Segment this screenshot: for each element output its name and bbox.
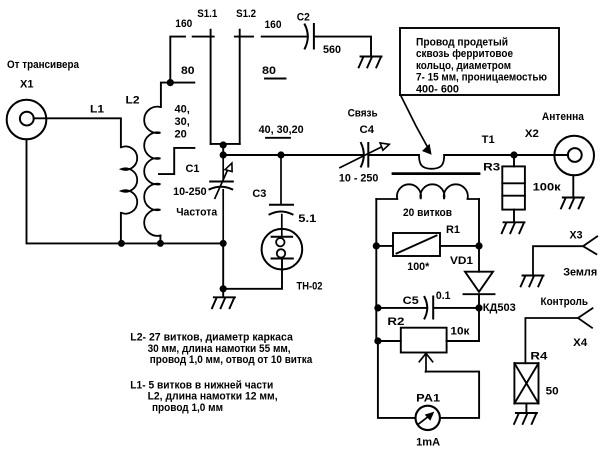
svg-text:X4: X4	[573, 337, 588, 349]
resistor R4 (with X)	[514, 363, 538, 413]
svg-text:X1: X1	[20, 79, 34, 91]
ground under X3	[521, 276, 544, 287]
main line left segment	[223, 154, 364, 156]
neon lamp TH-02	[262, 229, 303, 270]
wire 40/30/20 stub right	[266, 137, 290, 139]
wire ground junction to lamp	[223, 259, 282, 289]
svg-text:R1: R1	[446, 224, 460, 236]
svg-text:160: 160	[265, 19, 282, 31]
svg-text:L2- 27 витков, диаметр каркас: L2- 27 витков, диаметр каркаса	[130, 332, 293, 344]
wire L2 top connector	[161, 83, 194, 107]
svg-text:VD1: VD1	[450, 255, 473, 267]
winding note L1 text	[130, 379, 277, 414]
transformer T1 core bar	[393, 172, 479, 175]
wire 160m tap from L2 top	[170, 37, 185, 83]
svg-text:R2: R2	[387, 316, 404, 328]
diode VD1	[464, 272, 495, 308]
svg-text:30 мм, длина намотки 55 мм,: 30 мм, длина намотки 55 мм,	[148, 343, 291, 355]
wire wiper to meter right	[426, 372, 480, 418]
svg-text:S1.2: S1.2	[236, 8, 256, 20]
svg-text:40,: 40,	[175, 103, 190, 115]
svg-text:провод 1,0 мм, отвод от 10 вит: провод 1,0 мм, отвод от 10 витка	[150, 354, 313, 366]
wire secondary right vertical	[478, 199, 480, 272]
svg-text:R4: R4	[530, 351, 548, 363]
svg-text:Частота: Частота	[176, 206, 218, 218]
svg-text:Связь: Связь	[348, 108, 378, 120]
svg-text:R3: R3	[483, 162, 500, 174]
inductor L1	[121, 146, 137, 213]
ground under R3	[502, 222, 525, 233]
svg-text:560: 560	[323, 44, 341, 56]
svg-text:S1.1: S1.1	[197, 8, 217, 20]
svg-text:100к: 100к	[533, 182, 562, 194]
svg-text:сквозь ферритовое: сквозь ферритовое	[416, 48, 513, 60]
winding note L2 text	[130, 332, 312, 367]
connector X1 (От трансивера)	[7, 100, 47, 140]
svg-text:30,: 30,	[175, 116, 190, 128]
connector X2	[554, 136, 594, 176]
svg-text:80: 80	[262, 65, 276, 77]
wire switch common U	[211, 143, 240, 145]
node 80m tap junction	[167, 79, 174, 86]
svg-text:C4: C4	[360, 124, 375, 136]
svg-text:100*: 100*	[407, 261, 430, 273]
transformer T1 primary loop	[419, 155, 444, 169]
svg-text:Земля: Земля	[563, 267, 597, 279]
svg-text:20: 20	[175, 128, 187, 140]
svg-text:L2, длина намотки 12 мм,: L2, длина намотки 12 мм,	[148, 391, 278, 403]
wire S1.2 to C2	[262, 36, 308, 38]
ground under R4	[514, 413, 537, 424]
svg-text:C3: C3	[252, 188, 266, 200]
svg-text:40, 30,20: 40, 30,20	[259, 124, 304, 136]
svg-text:L1- 5 витков в нижней части: L1- 5 витков в нижней части	[130, 379, 273, 391]
variable capacitor C1	[210, 155, 233, 243]
wire L1 bottom	[120, 213, 122, 244]
wire C2 to ground	[315, 37, 372, 56]
wire X1 to L1 top	[34, 118, 121, 147]
svg-text:PA1: PA1	[416, 393, 440, 405]
svg-text:80: 80	[181, 65, 195, 77]
svg-text:Контроль: Контроль	[541, 296, 589, 308]
capacitor C5	[378, 297, 479, 319]
node C3 junction	[277, 151, 284, 158]
wire switch to main line	[222, 145, 224, 155]
resistor R1	[376, 233, 479, 256]
svg-text:Провод продетый: Провод продетый	[416, 36, 508, 48]
main line right segment	[444, 154, 514, 156]
node switch common	[220, 141, 227, 148]
svg-text:T1: T1	[482, 134, 495, 146]
ground under C2	[359, 57, 382, 68]
node main line at C1	[220, 151, 227, 158]
ground under C1	[212, 289, 235, 308]
svg-text:X2: X2	[525, 128, 539, 140]
node L1-bus junction	[118, 240, 125, 247]
terminal X3 fork	[533, 236, 597, 275]
wire secondary left vertical	[375, 199, 377, 341]
wire main line to X2	[514, 154, 568, 156]
svg-text:5.1: 5.1	[298, 213, 316, 225]
svg-text:C5: C5	[403, 295, 419, 307]
R2 wiper arrow	[419, 353, 432, 371]
svg-text:провод 1,0 мм: провод 1,0 мм	[152, 402, 223, 414]
switch S1.1	[193, 30, 214, 144]
variable capacitor C4	[340, 143, 389, 168]
svg-text:C2: C2	[297, 12, 310, 24]
wire L2 bottom connector	[159, 236, 161, 244]
node C5 right / diode cathode	[475, 304, 482, 311]
svg-text:C1: C1	[186, 163, 200, 175]
potentiometer R2	[378, 308, 479, 353]
node L2-bus junction	[157, 240, 164, 247]
meter PA1	[416, 406, 440, 430]
node R3/X2 junction	[510, 151, 517, 158]
main line middle segment	[369, 154, 419, 156]
svg-text:L2: L2	[126, 95, 140, 107]
inductor L2	[144, 107, 160, 236]
capacitor C2	[305, 24, 314, 49]
svg-text:10к: 10к	[450, 326, 470, 338]
svg-text:1mA: 1mA	[416, 437, 440, 449]
svg-text:400- 600: 400- 600	[416, 84, 459, 96]
node R1 right	[475, 242, 482, 249]
svg-text:20 витков: 20 витков	[403, 207, 452, 219]
capacitor C3	[270, 155, 294, 237]
node R2 left	[374, 337, 381, 344]
wire X1 down and bottom bus	[27, 139, 224, 243]
svg-text:ТН-02: ТН-02	[297, 281, 323, 293]
wire L2 10-turn tap (40/30/20)	[159, 148, 194, 174]
svg-text:X3: X3	[570, 230, 583, 242]
node C1-bus junction	[220, 240, 227, 247]
svg-text:КД503: КД503	[483, 302, 516, 314]
note leader arrow	[401, 96, 431, 154]
terminal X4 fork	[525, 308, 592, 363]
note box	[400, 28, 559, 95]
node C5 left	[374, 304, 381, 311]
wire C1 to lamp ground run	[222, 243, 224, 288]
svg-text:7- 15 мм, проницаемостью: 7- 15 мм, проницаемостью	[416, 72, 547, 84]
svg-text:кольцо, диаметром: кольцо, диаметром	[416, 60, 511, 72]
note text	[416, 36, 547, 95]
node R1 left	[373, 242, 380, 249]
ground under X2	[561, 198, 584, 209]
wire left vertical to meter	[378, 341, 414, 418]
svg-text:10-250: 10-250	[173, 186, 207, 198]
svg-text:10 - 250: 10 - 250	[339, 173, 379, 185]
node ground junction	[220, 285, 227, 292]
svg-text:L1: L1	[90, 104, 104, 116]
svg-text:0.1: 0.1	[436, 290, 451, 302]
transformer T1 secondary winding	[376, 184, 479, 199]
svg-text:50: 50	[546, 386, 559, 398]
switch S1.2	[235, 30, 253, 144]
wire 80m stub right	[265, 78, 286, 80]
svg-text:От трансивера: От трансивера	[7, 59, 80, 71]
svg-text:160: 160	[175, 18, 192, 30]
resistor R3	[502, 155, 525, 222]
svg-text:Антенна: Антенна	[542, 111, 585, 123]
wire X2 to ground	[572, 175, 574, 197]
